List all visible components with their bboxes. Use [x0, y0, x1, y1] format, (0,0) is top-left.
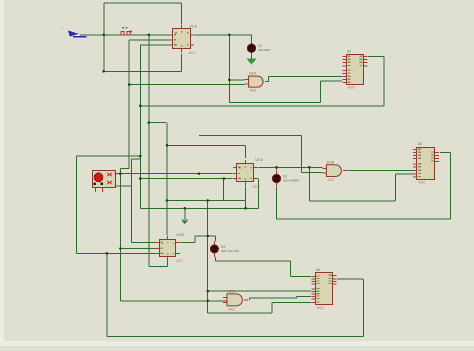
svg-text:U2: U2 [347, 49, 351, 53]
svg-text:4026: 4026 [348, 86, 355, 90]
svg-text:LED-RED: LED-RED [258, 48, 270, 52]
svg-text:U3:C: U3:C [228, 289, 236, 293]
svg-text:4081: 4081 [250, 89, 257, 93]
svg-text:U7:A: U7:A [256, 158, 264, 162]
svg-text:4027: 4027 [176, 259, 183, 263]
svg-text:LED-YELLOW: LED-YELLOW [221, 249, 239, 253]
svg-text:4026: 4026 [316, 306, 323, 310]
svg-text:?: ? [61, 27, 63, 31]
svg-text:4081: 4081 [327, 178, 334, 182]
svg-text:4081: 4081 [228, 307, 235, 311]
svg-text:U3:B: U3:B [327, 160, 334, 164]
svg-text:4027: 4027 [253, 185, 260, 189]
svg-text:LED-GREEN: LED-GREEN [283, 178, 299, 182]
svg-text:4027: 4027 [189, 51, 196, 55]
svg-text:U6: U6 [316, 268, 320, 272]
svg-text:U3:A: U3:A [249, 72, 257, 76]
svg-text:4026: 4026 [418, 181, 425, 185]
svg-text:U5: U5 [418, 142, 422, 146]
svg-text:U7:B: U7:B [177, 233, 184, 237]
svg-text:U1:A: U1:A [190, 25, 198, 29]
